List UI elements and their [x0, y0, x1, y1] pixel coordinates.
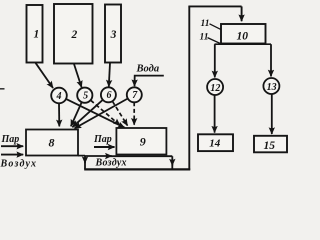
recycle top wire	[188, 5, 241, 7]
block 3	[105, 5, 121, 63]
svg-text:10: 10	[237, 31, 249, 43]
air drop right of apparatus9 to collector	[171, 156, 173, 165]
collector line	[84, 168, 190, 170]
wire sensor4 to apparatus8	[58, 103, 60, 126]
svg-text:Пар: Пар	[93, 134, 112, 145]
dashed wire sensor6 to apparatus9	[112, 101, 127, 125]
steam arrow into apparatus8	[1, 145, 23, 147]
sensor 4	[51, 88, 67, 104]
apparatus 8	[26, 130, 78, 156]
wire sensor7 to apparatus8	[75, 99, 128, 129]
block 10	[221, 24, 266, 44]
svg-text:12: 12	[210, 83, 220, 94]
wire block2 to sensor5	[74, 64, 82, 87]
leader 11 lower	[208, 38, 221, 44]
wire sensor5 to apparatus8	[71, 102, 82, 126]
sensor 6	[101, 87, 116, 102]
svg-text:Воздух: Воздух	[0, 158, 36, 169]
svg-text:4: 4	[56, 91, 62, 102]
wire block1 to sensor4	[36, 63, 54, 88]
dashed wire sensor7 to apparatus9	[133, 102, 135, 125]
air line from apparatus8 corner	[78, 155, 85, 157]
svg-text:1: 1	[34, 29, 40, 41]
sensor 7	[127, 87, 142, 102]
wire sensor12 to block14	[214, 95, 216, 133]
sensor 13	[263, 78, 279, 94]
air arrow into apparatus8	[1, 154, 23, 156]
edge artifact dash	[0, 88, 5, 90]
air drop from apparatus8 to collector	[84, 156, 86, 164]
steam arrow into apparatus9	[94, 146, 115, 148]
svg-text:9: 9	[140, 135, 146, 149]
wire to sensor13	[270, 44, 272, 76]
wire sensor4 to apparatus9	[66, 99, 125, 128]
wire block3 to sensor6	[109, 63, 110, 87]
recycle riser wire	[188, 6, 190, 170]
svg-text:Пар: Пар	[1, 134, 20, 145]
svg-text:14: 14	[209, 138, 221, 150]
block 1	[27, 5, 43, 63]
svg-text:8: 8	[49, 135, 55, 149]
wire to sensor12	[214, 44, 216, 77]
leader 11 upper	[210, 24, 222, 30]
svg-text:Воздух: Воздух	[95, 158, 127, 169]
air line under apparatus9	[85, 155, 112, 157]
svg-text:Вода: Вода	[136, 64, 160, 75]
svg-text:15: 15	[263, 140, 275, 152]
distribution wire under block10	[215, 43, 272, 45]
wire water line to sensor7	[135, 76, 164, 87]
svg-text:3: 3	[110, 29, 117, 41]
dashed wire sensor5 to apparatus9	[91, 100, 120, 125]
svg-text:6: 6	[107, 90, 112, 101]
sensor 5	[77, 88, 92, 103]
wire sensor6 to apparatus8	[72, 100, 102, 127]
svg-text:2: 2	[71, 29, 78, 41]
sensor 12	[207, 79, 223, 95]
block 2	[54, 4, 93, 64]
svg-text:5: 5	[83, 90, 88, 101]
wire sensor13 to block15	[271, 94, 273, 134]
block 15	[254, 136, 287, 153]
apparatus 9	[116, 128, 166, 155]
svg-text:11: 11	[201, 19, 210, 29]
block 14	[198, 134, 233, 151]
wire into block10 top	[241, 6, 243, 21]
svg-text:13: 13	[267, 82, 277, 93]
svg-text:11: 11	[200, 33, 209, 43]
